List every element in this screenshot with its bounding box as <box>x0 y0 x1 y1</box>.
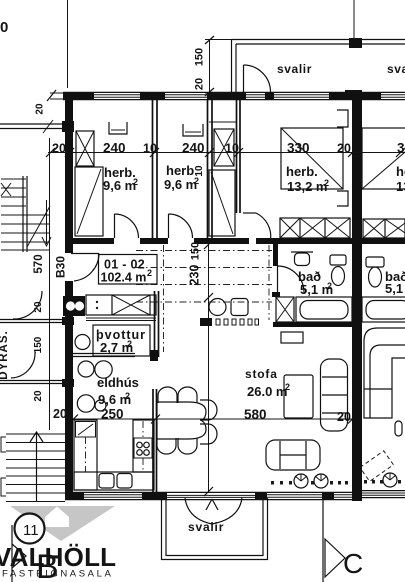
entry door <box>71 253 99 255</box>
svg-text:9,6 m: 9,6 m <box>164 177 197 192</box>
chairs bottom <box>157 438 176 454</box>
svg-text:240: 240 <box>103 141 126 156</box>
open-plan divider / dim line <box>204 240 213 496</box>
balcony dim labels <box>194 48 206 90</box>
double bed herb3 <box>281 128 343 189</box>
french doors to lower balcony <box>185 498 212 524</box>
table <box>157 402 206 439</box>
strip top line <box>209 121 236 123</box>
DIMENSION bottom row 250/580 <box>69 407 357 425</box>
svg-text:330: 330 <box>287 141 310 156</box>
bottom counter with sinks <box>74 472 154 490</box>
svg-text:2: 2 <box>327 281 332 291</box>
svg-text:2: 2 <box>147 268 152 278</box>
svg-text:250: 250 <box>101 407 124 422</box>
SECTION MARKERS <box>323 498 363 582</box>
party wall head <box>345 90 362 100</box>
svg-text:2: 2 <box>125 391 130 401</box>
bridge to wall <box>0 123 65 125</box>
left exterior wall <box>65 99 73 253</box>
svg-text:330: 330 <box>397 141 405 156</box>
svg-text:240: 240 <box>182 141 205 156</box>
right unit corner sofa <box>360 328 405 481</box>
bed herb1 <box>75 167 103 236</box>
HALL furniture <box>200 299 259 327</box>
door herb2 <box>168 214 170 238</box>
sofa right 3-seater <box>321 359 348 431</box>
chairs right <box>200 400 217 420</box>
svg-text:10: 10 <box>225 142 239 156</box>
svg-text:0: 0 <box>0 19 8 36</box>
nightstand herb2 <box>183 124 203 136</box>
unit number box <box>99 255 158 285</box>
STAIRS top-left <box>0 120 74 252</box>
party wall centerline above <box>353 0 355 39</box>
TOP BALCONIES <box>205 36 405 97</box>
toilet <box>330 255 346 265</box>
WINDOWS in bottom wall <box>65 491 405 500</box>
chairs top <box>158 387 177 403</box>
tall closet strip <box>209 170 235 236</box>
svg-text:2: 2 <box>285 382 290 392</box>
corner extension ticks <box>50 92 65 94</box>
svg-text:herb: herb <box>166 163 194 178</box>
WINDOWS in top wall <box>63 92 405 99</box>
svg-text:B30: B30 <box>54 256 68 278</box>
bath bottom wall <box>273 322 352 327</box>
svg-text:150: 150 <box>190 242 202 260</box>
svg-text:570: 570 <box>33 254 45 273</box>
BATHROOM left unit <box>276 252 352 322</box>
BOTTOM BALCONY <box>162 498 268 560</box>
nightstand herb1 <box>109 122 127 134</box>
svg-text:herb.: herb. <box>396 164 405 179</box>
HALL dashed ceiling lines <box>136 245 272 352</box>
sink <box>291 251 313 253</box>
svg-text:10: 10 <box>143 142 157 156</box>
DINING <box>157 387 217 454</box>
wardrobe XX under wall <box>280 218 350 238</box>
party wall <box>352 91 362 498</box>
svg-text:13,2: 13,2 <box>396 179 405 194</box>
svg-text:580: 580 <box>244 407 267 422</box>
dim extensions <box>205 39 232 41</box>
landing door arcs <box>13 291 42 319</box>
svg-text:230: 230 <box>188 265 202 286</box>
svg-text:20: 20 <box>33 301 44 313</box>
door herb1 <box>114 214 116 238</box>
svg-text:DYRAS.: DYRAS. <box>0 330 10 379</box>
svg-text:svalir: svalir <box>188 520 224 534</box>
svg-text:01 - 02: 01 - 02 <box>104 258 145 272</box>
extension line above left wall <box>67 0 69 88</box>
svg-text:150: 150 <box>194 48 206 66</box>
laundry bottom wall <box>73 353 135 355</box>
svg-text:C: C <box>343 548 363 579</box>
svg-text:svalir: svalir <box>277 62 312 76</box>
svg-text:13,2 m: 13,2 m <box>287 179 327 194</box>
door herb3 <box>243 212 256 214</box>
LAUNDRY <box>75 325 150 356</box>
LEFT vertical dimension chain <box>0 103 68 430</box>
svg-text:2: 2 <box>324 178 329 188</box>
closet X strip <box>214 129 234 166</box>
top exterior wall segments <box>63 92 94 100</box>
WATERMARK + LOGO <box>0 506 116 580</box>
hall vertical dims <box>188 165 206 285</box>
svg-text:2: 2 <box>133 177 138 187</box>
svg-text:eldhús: eldhús <box>97 375 139 390</box>
svg-text:VALHÖLL: VALHÖLL <box>0 542 116 572</box>
laundry wall hatched <box>154 291 156 357</box>
svg-text:20: 20 <box>52 142 66 156</box>
svg-text:20: 20 <box>35 103 46 115</box>
entry threshold blob with two circles <box>63 296 85 316</box>
sofa bottom 2-seater <box>266 440 320 470</box>
left counter <box>74 420 97 490</box>
LANDING lines <box>0 317 74 387</box>
radiator comb <box>200 318 212 326</box>
bathtub <box>296 297 352 322</box>
bath left wall <box>273 244 278 266</box>
window dots and fans bottom <box>271 473 401 489</box>
FURNITURE bedrooms <box>75 122 127 236</box>
svg-text:11: 11 <box>23 522 39 539</box>
svg-text:150: 150 <box>33 336 44 353</box>
DOORS <box>11 65 304 524</box>
kitchen-dining divider <box>152 389 154 497</box>
svg-text:102.4 m: 102.4 m <box>101 271 147 285</box>
BATHROOM right unit (cut) <box>362 128 405 189</box>
STOFA furniture <box>266 332 348 470</box>
svg-text:20: 20 <box>53 407 67 421</box>
door bath <box>277 266 279 293</box>
WALLS <box>47 0 405 501</box>
svg-text:20: 20 <box>337 142 351 156</box>
STAIRS bottom-left <box>1 432 65 502</box>
bottom exterior wall <box>65 492 84 500</box>
INTERIOR PARTITIONS (double lines) <box>73 100 240 497</box>
coffee table <box>284 375 313 418</box>
radiator under bath wall <box>281 332 303 343</box>
svg-text:5,1: 5,1 <box>385 281 403 296</box>
svg-text:stofa: stofa <box>245 367 278 381</box>
svg-text:20: 20 <box>337 410 351 424</box>
hall closet top <box>86 295 156 321</box>
svg-text:2: 2 <box>127 339 132 349</box>
svg-text:20: 20 <box>33 390 44 402</box>
svg-text:10: 10 <box>194 165 205 177</box>
closet X in bath <box>276 297 294 322</box>
right counter with stove <box>133 420 154 472</box>
balcony door top <box>243 65 245 92</box>
svg-text:svalir: svalir <box>387 62 405 76</box>
svg-text:26.0 m: 26.0 m <box>247 384 287 399</box>
closet X herb1 <box>76 131 94 166</box>
DIMENSION LINE top row <box>46 141 405 158</box>
nightstands herb3 <box>337 110 348 127</box>
svg-text:9,6 m: 9,6 m <box>103 178 136 193</box>
svg-text:20: 20 <box>194 78 206 90</box>
svg-text:FASTEIGNASALA: FASTEIGNASALA <box>2 569 113 580</box>
dashed future furniture <box>360 451 394 482</box>
corridor wall with door openings <box>65 238 114 244</box>
svg-text:herb.: herb. <box>286 164 318 179</box>
KITCHEN <box>74 361 154 490</box>
